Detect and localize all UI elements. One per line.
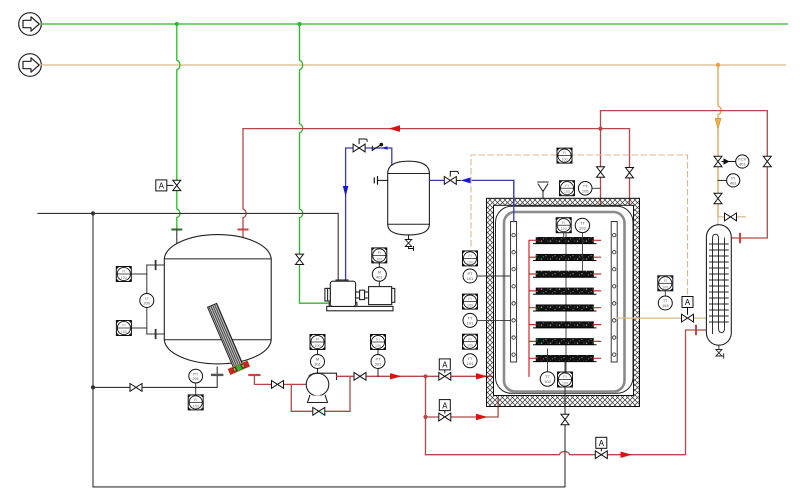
wire: tan line from right electrode to HX: [617, 317, 706, 319]
wire: dashed signal line box: [471, 155, 688, 296]
instrument square LSH-200: [116, 267, 147, 282]
node: red junction x=425.5 y=417: [423, 415, 427, 419]
svg-text:103: 103: [579, 225, 586, 230]
instrument square FI-101b: [463, 294, 478, 309]
motor: [369, 287, 392, 305]
svg-text:104: 104: [467, 361, 474, 366]
node: green header junction 1: [175, 22, 179, 26]
compressor body: [329, 302, 357, 306]
arrow down on orange branch: [715, 119, 721, 129]
right electrode bar: [611, 222, 617, 363]
capped nozzle on vessel left: [374, 177, 387, 184]
instrument square HS-401 (above motor): [372, 248, 387, 263]
svg-text:200: 200: [143, 301, 150, 306]
valve on HX top tan stub: [725, 213, 737, 221]
valve XV with actuator A on transfer line: [595, 437, 607, 458]
node: red junction at x=600.5: [598, 127, 602, 131]
node: black junction x=93 y=387.4: [91, 385, 95, 389]
reactor inner vessel wall (thick gray): [504, 212, 625, 392]
coupling: [356, 292, 360, 298]
arrow right on jacket feed: [476, 414, 488, 420]
svg-text:102: 102: [544, 379, 551, 384]
instrument square FIC-104 (left of HX): [658, 276, 673, 291]
reactor R-100 insulated shell: [487, 198, 640, 406]
inlet flow symbol 1 (circle with block arrow): [19, 13, 42, 36]
wire: reactor bottom outlet (black): [564, 386, 566, 487]
wire: red recycle line y=128.6 (reactor to tank): [243, 128, 630, 130]
wire: stub into tank dome: [176, 230, 178, 244]
HX bottom drain valve: [716, 345, 724, 358]
instrument square LSL-200: [116, 321, 146, 336]
wire: blue vapor line from vessel top to compressor: [346, 148, 392, 281]
instrument square FI-102 (reactor bottom inside): [558, 362, 573, 387]
flange tick green nozzle: [172, 229, 181, 231]
wire: center sample line through trays: [565, 232, 567, 372]
wire: red top line y=110.6 to HX: [601, 111, 768, 238]
control valve on blue product line: [444, 171, 458, 184]
svg-text:101: 101: [467, 320, 474, 325]
level bridge on tank left: [147, 261, 165, 338]
wire: red feed to reactor trays y=376.3: [426, 375, 530, 377]
arrow down on blue line: [343, 186, 349, 196]
wire: red pump bypass loop: [291, 376, 350, 411]
valve XV with actuator A on tan line: [682, 297, 694, 323]
flange tick red tank nozzle: [239, 229, 248, 231]
instrument square PIC-301: [371, 335, 386, 350]
valve XV with actuator A on green branch 1: [156, 180, 181, 191]
arrow left blue on product line: [461, 177, 472, 183]
wire: HX top nozzle: [717, 217, 719, 226]
flange tick at lance outlet: [249, 374, 259, 376]
vessel bottom drain valve: [405, 235, 413, 251]
valve on red line x=767.3: [763, 156, 771, 166]
wire: red feed to reactor jacket y=417: [426, 398, 499, 417]
instrument circle FCV-401: [736, 155, 749, 168]
inlet port left: [325, 288, 330, 301]
instrument circle PT-301: [371, 350, 385, 377]
svg-text:201: 201: [192, 376, 199, 381]
flange tick HX lower-left nozzle: [695, 326, 697, 334]
instrument circle LI-200: [140, 294, 154, 308]
wire: green branch 1 vertical x=177 (to tank): [177, 24, 180, 230]
valve on pump suction: [272, 381, 284, 389]
wire: blue drop into left electrode: [513, 180, 515, 221]
wire: red into HX left: [696, 329, 707, 331]
instrument circle M-401: [372, 263, 386, 287]
catalyst trays (8): [534, 237, 597, 361]
compressor C-401 with motor: [325, 280, 395, 311]
arrow right on discharge: [390, 373, 402, 379]
wire: red transfer line y=454.7 to HX: [426, 330, 696, 455]
wire: red pump suction line: [254, 376, 306, 384]
wire: blue product line vessel to reactor: [429, 179, 444, 181]
wire: red vertical x=600.5 (reactor tray manifold riser): [600, 111, 602, 359]
instrument circle M-301: [311, 350, 325, 374]
left instrument column: square FI-101: [463, 251, 478, 266]
tank T-200 (agitated vessel): [164, 235, 271, 364]
valve on reactor bottom outlet: [561, 414, 569, 424]
node: tan/orange header junction: [716, 63, 720, 67]
wire: red branch x=629.5 into reactor top corner: [629, 129, 631, 206]
heating lance (hatched) inside tank: [202, 301, 249, 375]
wire: tan supply header y=65: [41, 64, 785, 66]
valve XV with actuator A on tray feed: [439, 359, 451, 380]
arrow right on transfer line: [621, 452, 633, 458]
instrument circle TT-104a: [463, 354, 477, 368]
node: green header junction 2: [297, 22, 301, 26]
node: red junction x=425.5 y=376.3: [423, 374, 427, 378]
svg-text:301: 301: [314, 362, 321, 367]
flange tick HX right nozzle: [739, 234, 741, 242]
control valve FCV-401 on orange branch: [714, 156, 736, 166]
svg-text:401: 401: [730, 180, 737, 185]
wire: red pump discharge line: [337, 375, 426, 377]
valve on red branch x=629.5: [626, 168, 634, 178]
instrument circle TT-104b: [658, 291, 672, 310]
base plate: [327, 306, 393, 310]
instrument circle TT-103: [575, 218, 589, 271]
valve on red riser x=600.5: [597, 167, 605, 177]
instrument square PIC-201 under tank: [188, 395, 203, 410]
valve on black branch: [130, 384, 142, 392]
wire: red tray manifold right stubs: [594, 240, 601, 358]
wire: red drop x=425.5: [425, 376, 427, 454]
top nozzle caps: [336, 279, 342, 281]
instrument circle TT-105: [578, 182, 600, 196]
instrument circle PT-101: [463, 269, 510, 283]
wire: black utility line y=213.4: [38, 213, 338, 281]
wire: red vertical x=243 down to tank dome: [243, 129, 246, 240]
valve on bypass: [313, 407, 325, 415]
wire: black branch y=387.4 to tank bottom: [93, 367, 217, 387]
wire: red tray manifold left: [529, 240, 536, 376]
instrument circle TT-101: [463, 313, 510, 327]
left electrode bar: [511, 222, 517, 363]
valve XV with actuator A on jacket feed: [439, 400, 451, 421]
valve on orange branch lower: [714, 193, 722, 203]
flange tick tank bottom nozzle: [212, 374, 222, 376]
instrument circle PT-201 under tank: [189, 369, 203, 395]
instrument square PIC-105 on dashed line: [557, 148, 572, 163]
reactor top vent: [538, 182, 548, 199]
arrow right on tray feed: [476, 373, 488, 379]
inlet flow symbol 2 (circle with block arrow): [19, 54, 42, 77]
svg-text:401: 401: [376, 274, 383, 279]
check symbol on blue line: [372, 143, 383, 151]
pump P-301 (centrifugal): [306, 373, 336, 402]
instrument square TIC-105 (above reactor): [560, 181, 575, 196]
instrument square FI-104: [463, 334, 478, 349]
wire: green supply header y=24: [41, 23, 787, 25]
arrow left small blue: [382, 146, 388, 150]
svg-text:104: 104: [662, 303, 669, 308]
valve on discharge: [354, 372, 366, 380]
svg-text:401: 401: [739, 162, 746, 167]
wire: black drop x=93 to bottom: [93, 213, 565, 487]
knockout vessel V-401: [388, 161, 430, 235]
valve on green branch 2: [296, 254, 304, 264]
arrow left on red recycle line: [389, 125, 401, 132]
heat exchanger E-401: [706, 225, 731, 346]
wire: green branch 2 vertical x=300 (to compressor): [300, 24, 329, 303]
wire: tan stub to HX top with valve: [718, 216, 746, 218]
svg-text:101: 101: [467, 276, 474, 281]
instrument square HS-301 above pump: [310, 335, 325, 350]
svg-text:301: 301: [375, 362, 382, 367]
instrument circle TT-102 (reactor bottom inside): [540, 349, 555, 386]
svg-text:105: 105: [582, 188, 589, 193]
node: black junction x=93: [91, 211, 95, 215]
reactor inner vessel wall (thin): [496, 206, 634, 393]
instrument circle PI-401: [718, 174, 740, 187]
wire: orange branch vertical x=718: [718, 65, 721, 217]
instrument square AI-103 (reactor top inside): [556, 218, 571, 238]
control valve on blue line: [353, 139, 367, 152]
